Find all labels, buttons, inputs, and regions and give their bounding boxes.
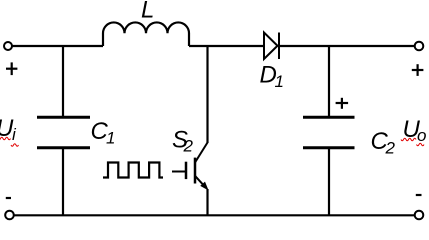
minus label bottom-left (6, 197, 11, 199)
svg-text:1: 1 (106, 129, 115, 148)
bottom rail wire (14, 214, 415, 216)
wire switch emitter (206, 189, 208, 215)
wire top rail right (279, 45, 415, 47)
wire top rail left (12, 45, 103, 47)
terminal bottom-right (415, 211, 424, 220)
wire C1 bottom branch (62, 147, 64, 215)
svg-text:2: 2 (183, 137, 194, 156)
inductor L (103, 22, 189, 46)
terminal bottom-left (5, 211, 14, 220)
svg-text:1: 1 (275, 72, 284, 91)
wire top rail middle (189, 45, 264, 47)
plus label top-right (412, 64, 424, 76)
minus label bottom-right (416, 194, 422, 196)
capacitor C2 (303, 117, 355, 147)
svg-text:o: o (417, 126, 426, 145)
spellcheck squiggle under Ui (0, 137, 11, 140)
capacitor C1 (37, 117, 90, 147)
PWM square wave (103, 163, 163, 178)
transistor arrowhead (200, 182, 208, 191)
diode D1 (264, 33, 279, 60)
svg-text:2: 2 (385, 139, 396, 158)
svg-text:L: L (141, 0, 154, 24)
terminal top-left (4, 42, 12, 50)
terminal top-right (415, 42, 424, 51)
wire C2 bottom branch (328, 147, 330, 215)
plus label at C2 (336, 98, 349, 109)
spellcheck squiggle under Uo (401, 138, 416, 141)
svg-text:i: i (12, 125, 17, 144)
plus label top-left (6, 62, 17, 75)
wire switch collector (206, 46, 208, 143)
transistor S2 (IGBT) (172, 143, 208, 187)
wire C2 top branch (328, 46, 330, 117)
wire C1 top branch (62, 46, 64, 117)
